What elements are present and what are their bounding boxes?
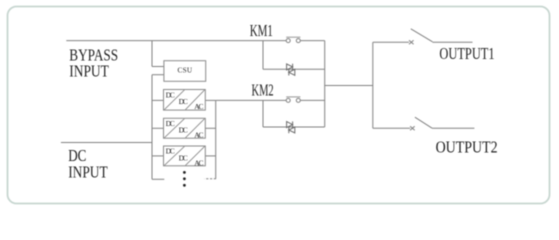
svg-text:INPUT: INPUT — [69, 61, 109, 80]
svg-text:DC: DC — [179, 97, 188, 106]
svg-text:AC: AC — [194, 102, 203, 111]
wire bottom-right dashed tail — [204, 178, 216, 180]
contactor KM1 contact — [286, 37, 300, 42]
disconnect switch output 1 — [409, 29, 433, 44]
wire module3 input stub — [152, 155, 164, 157]
contactor KM2 contact — [286, 97, 300, 103]
inverter module 3 (DC/DC/AC) — [164, 146, 206, 167]
label DC INPUT — [68, 146, 108, 181]
inverter module 2 (DC/DC/AC) — [164, 118, 206, 139]
wire KM2 input line from inverter bus — [216, 99, 286, 101]
wire OUTPUT1 feed — [373, 41, 409, 43]
wire OUTPUT2 feed — [373, 127, 410, 129]
wire KM1 left vertical — [262, 41, 264, 70]
svg-text:KM1: KM1 — [250, 21, 273, 40]
wire CSU upper stub — [152, 66, 164, 68]
svg-text:DC: DC — [179, 126, 188, 135]
wire bottom-left corner tail — [152, 178, 164, 180]
disconnect switch output 2 — [410, 117, 432, 130]
static switch SCR pair KM2 branch — [287, 121, 295, 133]
inverter module 1 (DC/DC/AC) — [164, 90, 206, 111]
wire module2 output stub — [205, 127, 215, 129]
wire OUTPUT2 out line — [432, 127, 474, 129]
wire left DC bus upper segment — [151, 41, 153, 67]
wire OUTPUT1 out line — [433, 41, 473, 43]
svg-text:KM2: KM2 — [252, 80, 274, 99]
wire bypass input line — [66, 40, 286, 42]
wire module1 output stub — [205, 99, 215, 101]
wire output bus vertical — [372, 42, 374, 128]
static switch SCR pair KM1 branch — [287, 64, 295, 76]
label BYPASS INPUT — [69, 46, 118, 81]
wire KM right vertical bus — [324, 41, 326, 127]
svg-text:AC: AC — [194, 131, 203, 140]
wire connector to output bus — [325, 85, 373, 87]
svg-text:AC: AC — [194, 158, 203, 167]
svg-text:OUTPUT1: OUTPUT1 — [439, 44, 494, 63]
wire left DC bus lower segment — [151, 75, 153, 180]
wire KM2 left vertical — [262, 100, 264, 127]
continuation dots (more modules) — [183, 171, 186, 187]
wire KM2 lower branch — [263, 126, 325, 128]
wire DC input line — [61, 142, 152, 144]
wire module2 input stub — [152, 127, 164, 129]
svg-text:CSU: CSU — [178, 67, 193, 75]
svg-text:DC: DC — [166, 147, 175, 156]
wire KM2 contact right segment — [300, 99, 324, 101]
svg-text:DC: DC — [179, 153, 188, 162]
outer rounded frame — [8, 7, 550, 204]
CSU box U1 — [164, 61, 206, 82]
svg-text:INPUT: INPUT — [68, 162, 108, 181]
wire module1 input stub — [152, 99, 164, 101]
wire inverter output bus — [215, 100, 217, 178]
svg-text:OUTPUT2: OUTPUT2 — [436, 137, 498, 156]
wire module3 output stub — [205, 155, 215, 157]
wire KM1 contact right segment — [300, 40, 324, 42]
svg-text:DC: DC — [166, 119, 175, 128]
wire CSU lower stub — [152, 74, 164, 76]
svg-text:DC: DC — [166, 90, 175, 99]
wire KM1 lower branch — [263, 68, 325, 70]
